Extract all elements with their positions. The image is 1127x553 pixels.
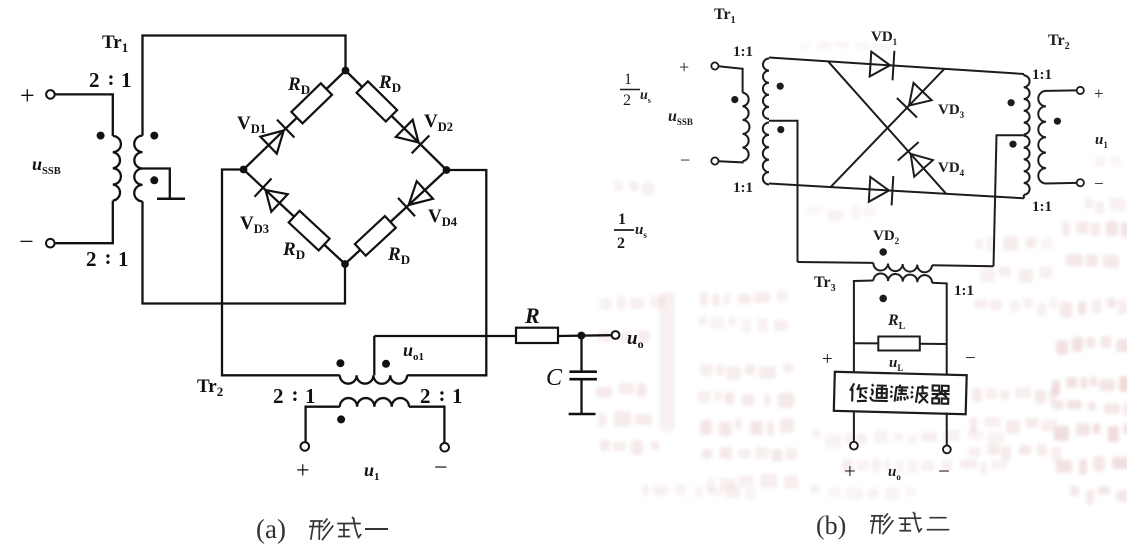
- wire bridge right node to Tr2 secondary right: [407, 170, 486, 375]
- wire diagonal A (top-left to bottom-right): [828, 61, 946, 194]
- junction bridge top node: [342, 67, 350, 75]
- wire capacitor to ground: [580, 379, 582, 413]
- diode VD4: [911, 154, 933, 177]
- wire Tr2 primary right lead: [409, 407, 444, 443]
- text low-pass filter (低通滤波器): [850, 383, 950, 404]
- winding Tr3 primary: [873, 263, 932, 272]
- wire Tr3 secondary left lead: [854, 281, 874, 375]
- winding Tr2b primary upper: [1024, 75, 1030, 134]
- polarity dot Tr1 secondary lower: [150, 176, 158, 184]
- polarity dot Tr2 primary: [337, 415, 345, 423]
- svg-text:C: C: [546, 365, 563, 391]
- svg-text:−: −: [19, 227, 34, 256]
- node - terminal (b right): [1077, 179, 1084, 186]
- wire + terminal to Tr1 primary top: [55, 94, 113, 136]
- node - terminal u1: [440, 443, 449, 452]
- svg-text:2: 2: [89, 68, 100, 92]
- diode VD3: [909, 83, 932, 106]
- svg-text:−: −: [965, 348, 976, 369]
- wire top rail (b): [769, 58, 1024, 75]
- winding Tr1 secondary: [134, 136, 142, 202]
- svg-text:1: 1: [452, 384, 463, 408]
- svg-text:+: +: [844, 459, 856, 483]
- svg-text:+: +: [20, 81, 35, 110]
- caption text 形式二: [871, 515, 883, 517]
- wire Tr2b center tap down to Tr3: [994, 135, 1024, 266]
- svg-text:−: −: [680, 150, 690, 170]
- svg-text:(a): (a): [256, 514, 286, 544]
- svg-text:1:1: 1:1: [1032, 199, 1052, 215]
- wire Tr2 center tap up (uo1): [373, 336, 375, 375]
- svg-text:(b): (b): [816, 511, 846, 540]
- winding Tr1b primary: [743, 93, 750, 162]
- node + terminal (b right): [1077, 87, 1084, 94]
- wire RL row left: [854, 342, 878, 344]
- winding Tr1b secondary upper: [763, 59, 769, 120]
- wire bottom rail (b): [769, 184, 1024, 199]
- junction bridge right node: [443, 166, 451, 174]
- wire bridge edge left-top: [244, 71, 346, 170]
- wire bridge left node to Tr2 secondary left: [222, 170, 340, 376]
- resistor RD (lower-left): [289, 211, 330, 251]
- svg-text:2: 2: [623, 92, 631, 109]
- node - output terminal (b): [943, 446, 951, 454]
- svg-text:2: 2: [420, 384, 431, 408]
- polarity dot Tr2b primary upper: [1008, 99, 1015, 106]
- wire bridge edge top-right: [346, 71, 447, 171]
- ground (capacitor): [569, 413, 596, 416]
- ground (Tr1 center tap): [157, 197, 185, 200]
- wire bottom rail to Tr2b bottom: [1023, 195, 1025, 199]
- winding Tr2 secondary (top): [340, 375, 407, 383]
- wire left vertical to Tr3 primary: [798, 261, 874, 264]
- node + terminal u1: [301, 442, 310, 451]
- winding Tr1 primary: [113, 136, 121, 201]
- polarity dot Tr1b secondary upper: [777, 83, 784, 90]
- svg-text:+: +: [296, 458, 310, 484]
- polarity dot Tr3 secondary: [879, 295, 887, 303]
- wire filter to + output: [853, 413, 855, 442]
- winding Tr2 primary (bottom): [340, 398, 409, 407]
- diode VD4: [409, 181, 433, 205]
- node output terminal uo: [612, 331, 620, 339]
- winding Tr2b primary lower: [1024, 136, 1030, 195]
- wire Tr1b center tap down to Tr3: [769, 121, 798, 262]
- svg-text:1: 1: [618, 211, 626, 228]
- wire Tr1 secondary top to bridge top: [143, 36, 346, 136]
- resistor RD (upper-right): [357, 81, 398, 121]
- svg-text::: :: [105, 245, 112, 269]
- polarity dot Tr1b primary: [731, 96, 738, 103]
- polarity dot Tr1b secondary lower: [777, 126, 784, 133]
- resistor RL: [878, 337, 920, 351]
- polarity dot Tr2b primary lower: [1009, 141, 1016, 148]
- svg-text:2: 2: [617, 235, 625, 252]
- wire Tr3 secondary right lead: [932, 283, 947, 375]
- polarity dot Tr2 secondary left: [336, 359, 344, 367]
- wire Tr3 primary right lead: [932, 265, 994, 266]
- svg-text:−: −: [1094, 174, 1104, 193]
- wire Tr1 center tap to ground: [143, 169, 170, 198]
- resistor RD (upper-left): [291, 83, 332, 123]
- wire resistor R to output: [558, 334, 612, 337]
- svg-text:1:1: 1:1: [733, 44, 753, 60]
- diode VD1: [260, 131, 283, 154]
- diode VD3: [266, 190, 288, 212]
- capacitor C: [569, 370, 597, 373]
- svg-text:R: R: [524, 303, 540, 328]
- junction bridge bottom node: [341, 260, 349, 268]
- svg-text::: :: [439, 382, 446, 406]
- svg-text:1:1: 1:1: [1032, 67, 1052, 83]
- junction bridge left node: [240, 166, 248, 174]
- svg-text:1: 1: [121, 68, 132, 92]
- wire RL row right: [920, 343, 947, 345]
- svg-text:+: +: [822, 349, 833, 370]
- scan noise pink bleedthrough: [1095, 156, 1105, 167]
- svg-text:1: 1: [624, 71, 632, 88]
- svg-text:−: −: [938, 459, 950, 483]
- wire uo1 to resistor R: [374, 335, 516, 337]
- svg-text:1:1: 1:1: [954, 283, 974, 299]
- wire Tr2b secondary top to + terminal: [1046, 89, 1077, 92]
- wire filter to - output: [946, 413, 948, 446]
- diode VD2: [869, 177, 889, 202]
- wire Tr2 primary left lead: [306, 407, 340, 443]
- svg-text:+: +: [1094, 84, 1104, 103]
- diode VD2: [396, 120, 419, 143]
- resistor R: [516, 328, 558, 343]
- wire Tr2b secondary bottom to - terminal: [1046, 182, 1077, 185]
- junction output node: [577, 332, 585, 340]
- wire bridge edge right-bottom: [345, 170, 447, 264]
- svg-text:1:1: 1:1: [733, 180, 753, 196]
- polarity dot Tr2 secondary right: [382, 360, 390, 368]
- svg-text:1: 1: [305, 384, 316, 408]
- block low-pass filter box: [834, 372, 967, 414]
- svg-text:2: 2: [86, 247, 97, 271]
- caption text 形式一: [310, 520, 323, 522]
- polarity dot Tr1 primary: [97, 132, 105, 140]
- svg-text:1: 1: [118, 247, 129, 271]
- wire + to Tr1b primary top: [719, 66, 743, 92]
- svg-text:2: 2: [273, 384, 284, 408]
- node + output terminal (b): [850, 442, 858, 450]
- winding Tr3 secondary: [873, 273, 932, 282]
- svg-text::: :: [108, 66, 115, 90]
- wire - terminal to Tr1 primary bottom: [55, 201, 113, 244]
- wire Tr1 secondary bottom to bridge bottom: [143, 201, 346, 303]
- svg-text::: :: [292, 382, 299, 406]
- svg-text:+: +: [679, 57, 689, 77]
- winding Tr2b secondary: [1038, 91, 1046, 184]
- wire node to capacitor: [580, 336, 582, 371]
- polarity dot Tr1 secondary top: [150, 132, 158, 140]
- wire bridge edge bottom-left: [244, 170, 346, 265]
- polarity dot Tr3 primary: [879, 248, 887, 256]
- wire top rail to Tr2b top: [1023, 74, 1025, 75]
- wire diagonal B (bottom-left to top-right): [831, 69, 945, 187]
- winding Tr1b secondary lower: [763, 123, 769, 185]
- diode VD1: [870, 52, 890, 77]
- svg-text:−: −: [434, 455, 448, 481]
- wire - to Tr1b primary bottom: [719, 161, 743, 162]
- resistor RD (lower-right): [355, 216, 396, 256]
- polarity dot Tr2b secondary: [1054, 118, 1061, 125]
